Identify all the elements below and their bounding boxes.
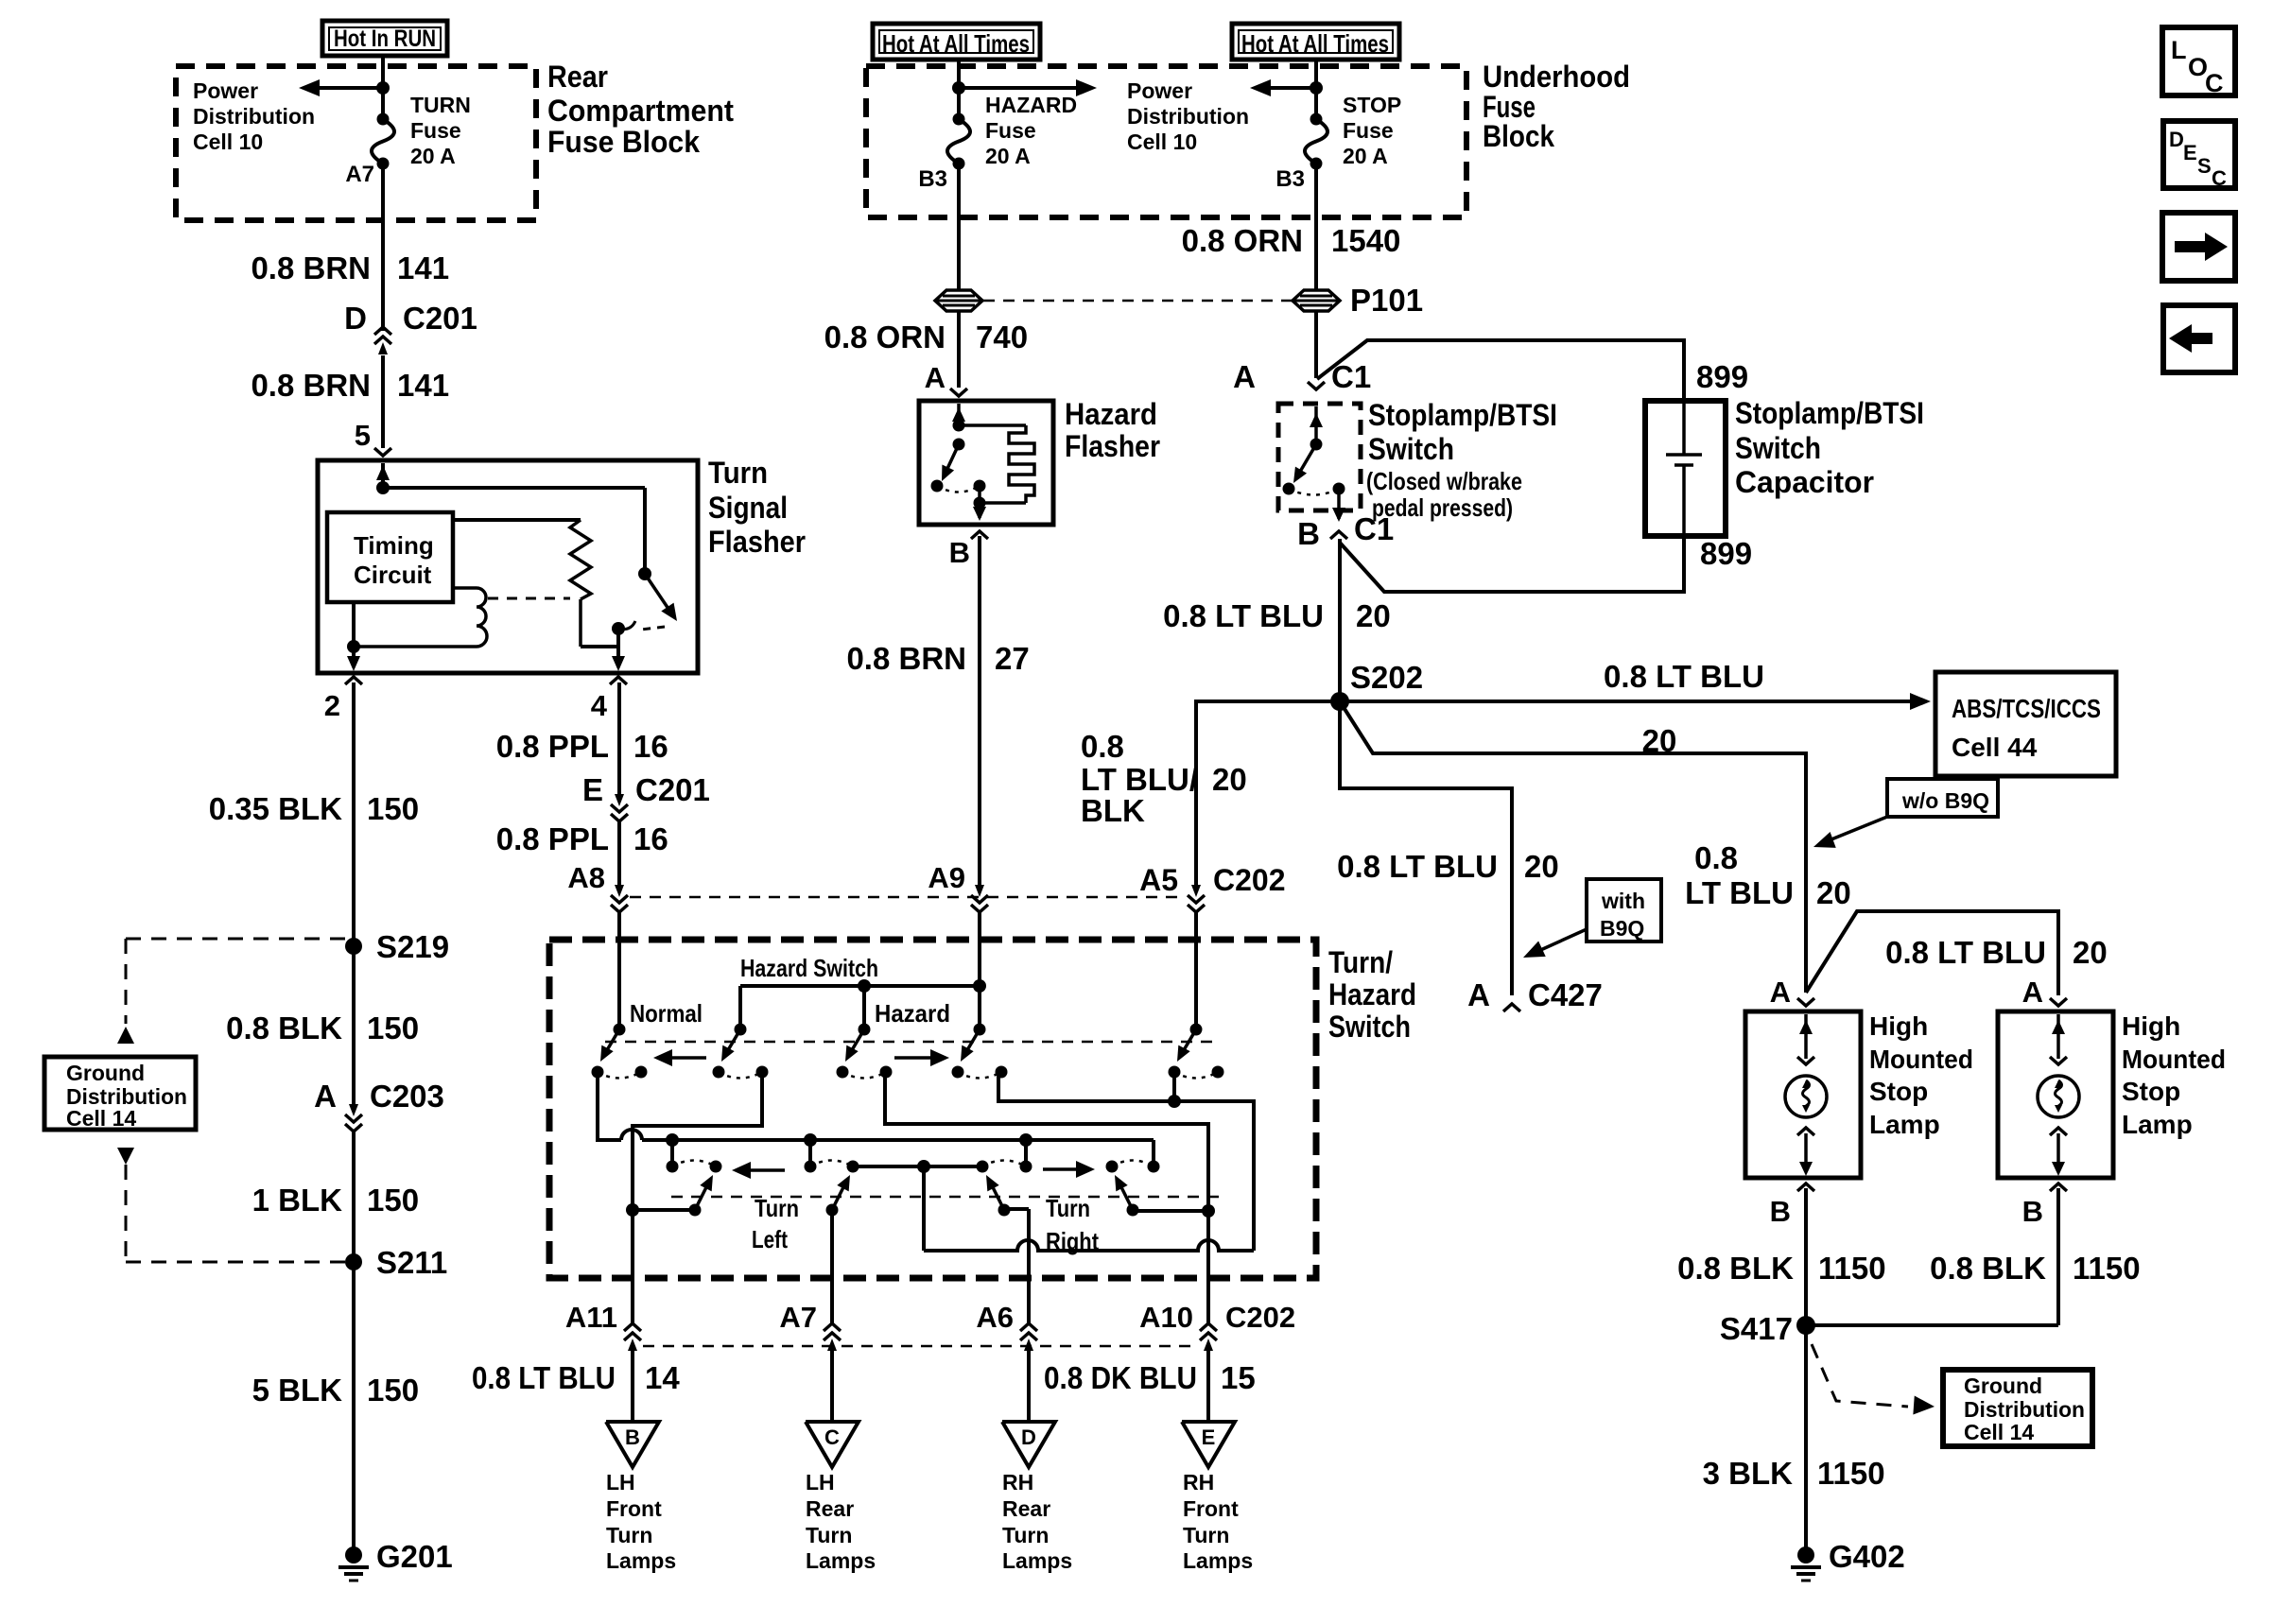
wire S202 to ABS cell: [1340, 693, 1931, 710]
lamp 1 inner chevron bottom: [1797, 1128, 1814, 1135]
wire hot to STOP fuse: [1314, 58, 1318, 119]
svg-text:Timing: Timing: [354, 531, 434, 560]
wire label 0.8 LT BLU 14: [472, 1360, 680, 1395]
svg-text:0.8 PPL: 0.8 PPL: [496, 821, 609, 856]
svg-text:P101: P101: [1350, 283, 1423, 318]
bus tap dot TR-A: [1019, 1133, 1032, 1147]
label "Stoplamp/BTSI Switch Capacitor": [1735, 396, 1924, 499]
label "High Mounted Stop Lamp" 1: [1869, 1011, 1973, 1139]
wire label 0.8 ORN 1540: [1182, 223, 1401, 258]
arrow w/o-B9Q to lamp wire: [1813, 817, 1887, 848]
wire label 0.8 LT BLU 20 (C427): [1337, 849, 1559, 884]
splice S202: [1330, 692, 1349, 711]
hazard flasher pivot dot: [953, 420, 965, 432]
svg-text:Capacitor: Capacitor: [1735, 465, 1874, 499]
svg-text:740: 740: [976, 320, 1028, 354]
svg-text:0.8 BLK: 0.8 BLK: [226, 1011, 342, 1045]
motion arrow right (upper row): [894, 1049, 949, 1066]
svg-text:High: High: [2122, 1011, 2180, 1041]
pin 2 chevron: [345, 677, 362, 684]
wire capacitor bottom loop: [1340, 536, 1684, 592]
svg-text:899: 899: [1696, 359, 1748, 394]
fuse TURN 20 A: [372, 119, 394, 164]
wire pole2 right contact to A11 node: [633, 1072, 762, 1205]
svg-text:27: 27: [995, 641, 1030, 676]
wire label 0.8 LT BLU 20 (stop): [1163, 598, 1391, 633]
flasher output node dot: [612, 622, 625, 635]
svg-text:C202: C202: [1213, 863, 1286, 897]
wire A11 node down / out: [631, 1210, 634, 1324]
C202 connector-row dashed line: [630, 896, 1185, 899]
svg-text:20 A: 20 A: [1343, 144, 1388, 168]
svg-text:A5: A5: [1139, 863, 1178, 897]
BTSI output wire: [1332, 489, 1345, 522]
ground distribution dashed link (left): [117, 939, 346, 1262]
connector A10 (C202): [1200, 1333, 1217, 1340]
svg-text:Cell 10: Cell 10: [193, 130, 263, 154]
chevron lamp 1 pin A: [1797, 998, 1814, 1006]
svg-text:Underhood: Underhood: [1483, 60, 1630, 94]
bulb (high mounted stop lamp 1): [1785, 1076, 1827, 1117]
wire stop fuse to P101: [1314, 164, 1318, 290]
svg-text:15: 15: [1221, 1360, 1256, 1395]
svg-text:B: B: [2022, 1195, 2043, 1228]
svg-text:0.8: 0.8: [1694, 840, 1738, 875]
Underhood Fuse Block dashed box: [866, 66, 1466, 217]
label "Turn Signal Flasher": [708, 456, 806, 559]
switch pole1 (A8/Normal) arm: [600, 1029, 619, 1062]
svg-text:Power: Power: [1127, 78, 1192, 103]
svg-text:D: D: [1021, 1425, 1036, 1449]
flasher switch dashed link: [641, 627, 665, 630]
svg-text:Cell 10: Cell 10: [1127, 130, 1197, 154]
pin 4 chevron: [610, 677, 627, 684]
svg-text:0.8 ORN: 0.8 ORN: [824, 320, 946, 354]
junction dot A11 node: [626, 1203, 639, 1217]
cross-link wire (hops A6, A10): [924, 1166, 1254, 1251]
wire bus to TR-A right contact: [1024, 1140, 1028, 1166]
svg-text:Compartment: Compartment: [547, 94, 734, 128]
svg-text:A6: A6: [976, 1301, 1014, 1334]
svg-text:Hazard: Hazard: [1065, 397, 1157, 431]
chevron lamp 2 pin A: [2050, 998, 2067, 1006]
svg-text:0.35 BLK: 0.35 BLK: [209, 791, 342, 826]
svg-text:0.8 ORN: 0.8 ORN: [1182, 223, 1303, 258]
svg-text:LT BLU: LT BLU: [1685, 875, 1794, 910]
svg-text:A8: A8: [567, 861, 605, 894]
Timing Circuit box: [327, 512, 453, 602]
connector E / C201: [582, 772, 710, 821]
svg-text:Hot In RUN: Hot In RUN: [334, 26, 436, 52]
label "Ground Distribution Cell 14" (right): [1964, 1373, 2085, 1444]
svg-text:Distribution: Distribution: [193, 104, 315, 129]
wire timing bottom to pin 2: [352, 602, 356, 662]
label "Power Distribution Cell 10" (underhood): [1127, 78, 1249, 154]
svg-text:5: 5: [355, 419, 371, 452]
connector A9 (C202 row): [971, 895, 988, 903]
svg-text:16: 16: [633, 729, 668, 764]
wire S202 to high lamp 1: [1340, 701, 1806, 993]
svg-text:A11: A11: [565, 1301, 617, 1334]
connector B / C1: [1297, 511, 1394, 551]
label "HAZARD Fuse 20 A": [985, 93, 1077, 168]
svg-text:TURN: TURN: [410, 93, 471, 117]
wire S211 to G201: [352, 1262, 356, 1547]
svg-text:Front: Front: [1183, 1496, 1239, 1521]
switch pole3 (Hazard) pivot dot: [859, 1024, 871, 1036]
wire C203 to S211: [352, 1132, 356, 1262]
wire A5 into switch: [1194, 912, 1198, 1029]
chevron hazard flasher pin B: [971, 531, 988, 539]
connector A7 (C202): [824, 1333, 841, 1340]
grommet P101 (stop side): [1293, 290, 1340, 311]
dashed coupling coil-resistor: [488, 597, 570, 600]
svg-text:0.8 PPL: 0.8 PPL: [496, 729, 609, 764]
label "Turn/ Hazard Switch": [1328, 945, 1416, 1044]
hazard flasher entry arrow: [952, 404, 965, 425]
svg-text:1 BLK: 1 BLK: [252, 1183, 343, 1218]
svg-text:20: 20: [1524, 849, 1559, 884]
switch pole2 contact arc: [719, 1072, 762, 1079]
flasher switch fixed contact: [638, 567, 651, 580]
svg-text:0.8 LT BLU: 0.8 LT BLU: [1885, 935, 2046, 970]
fuse STOP 20 A: [1305, 119, 1327, 164]
hazard flasher output wire: [973, 486, 986, 521]
wire hazard flasher B to A9: [978, 536, 981, 889]
svg-text:LH: LH: [606, 1470, 635, 1494]
Stoplamp/BTSI Switch dashed box: [1278, 404, 1361, 510]
svg-text:Stoplamp/BTSI: Stoplamp/BTSI: [1735, 396, 1924, 430]
flasher internal junction dot: [376, 481, 390, 494]
wire P101 to C1-A: [1314, 311, 1318, 378]
svg-text:0.8 BRN: 0.8 BRN: [846, 641, 966, 676]
svg-text:B9Q: B9Q: [1600, 916, 1644, 941]
svg-text:Signal: Signal: [708, 491, 788, 525]
label "Turn Left": [752, 1194, 799, 1253]
svg-text:C201: C201: [635, 772, 710, 807]
svg-text:Block: Block: [1483, 119, 1554, 153]
High Mounted Stop Lamp box 1: [1745, 1011, 1861, 1178]
switch pole5 (A5) right contact: [1212, 1066, 1224, 1079]
grommet P101 (hazard side): [935, 290, 982, 311]
destination triangle C: [806, 1422, 859, 1467]
svg-text:LT BLU/: LT BLU/: [1081, 762, 1198, 797]
svg-text:Hot At All Times: Hot At All Times: [1241, 29, 1389, 58]
turn-right pole A right contact: [1020, 1161, 1032, 1173]
ground G402: [1797, 1546, 1814, 1564]
svg-text:Ground: Ground: [1964, 1373, 2042, 1398]
label "ABS/TCS/ICCS Cell 44": [1952, 694, 2101, 762]
connector A11 (C202): [624, 1333, 641, 1340]
switch pole3 (Hazard) left contact: [837, 1066, 849, 1079]
wire bus end to TR-B right contact: [1152, 1140, 1155, 1168]
svg-text:20 A: 20 A: [410, 144, 456, 168]
svg-text:5 BLK: 5 BLK: [252, 1373, 343, 1408]
svg-text:E: E: [1202, 1425, 1216, 1449]
flasher internal top rail: [383, 486, 645, 490]
svg-text:C427: C427: [1528, 977, 1603, 1012]
svg-text:Rear: Rear: [547, 60, 608, 94]
C202 bottom connector-row dashed line: [643, 1345, 1198, 1348]
svg-text:HAZARD: HAZARD: [985, 93, 1077, 117]
wire hot to HAZARD fuse: [957, 58, 961, 119]
hazard flasher contact arc: [937, 486, 980, 492]
svg-text:Lamps: Lamps: [606, 1548, 676, 1573]
wire pole3 right contact to A10: [885, 1072, 1208, 1324]
svg-text:E: E: [582, 772, 603, 807]
wire A7 to triangle C: [830, 1351, 834, 1422]
wire A10 to triangle E: [1206, 1351, 1210, 1422]
svg-text:16: 16: [633, 821, 668, 856]
connector A / C427: [1467, 977, 1603, 1012]
svg-text:Turn: Turn: [1046, 1194, 1090, 1222]
switch pole1 (A8/Normal) pivot dot: [614, 1024, 626, 1036]
wire TL-B pivot to A7: [830, 1209, 834, 1324]
svg-text:0.8 LT BLU: 0.8 LT BLU: [472, 1360, 616, 1395]
ABS/TCS/ICCS Cell 44 box: [1935, 672, 2116, 776]
svg-text:S219: S219: [376, 929, 449, 964]
svg-text:0.8 DK BLU: 0.8 DK BLU: [1044, 1360, 1197, 1395]
bus tap dot TL-B: [804, 1133, 817, 1147]
junction node stop feed: [1310, 81, 1323, 95]
ground distribution dashed link (right): [1812, 1344, 1935, 1414]
svg-text:D: D: [2169, 128, 2184, 151]
Ground Distribution Cell 14 box (left): [44, 1057, 196, 1130]
svg-text:ABS/TCS/ICCS: ABS/TCS/ICCS: [1952, 694, 2101, 723]
svg-text:C: C: [824, 1425, 840, 1449]
label "Stoplamp/BTSI Switch": [1366, 398, 1557, 522]
svg-text:High: High: [1869, 1011, 1928, 1041]
turn-left pole B right contact: [847, 1161, 859, 1173]
BTSI left contact: [1283, 483, 1295, 495]
svg-text:Lamp: Lamp: [2122, 1110, 2193, 1139]
switch pole4 (A9) right contact: [996, 1066, 1008, 1079]
w/o B9Q box: [1887, 779, 1998, 817]
svg-text:150: 150: [367, 1373, 419, 1408]
svg-text:Turn: Turn: [606, 1523, 652, 1547]
wire C201 to flasher pin 5: [381, 355, 385, 448]
connector A6 (C202): [1020, 1333, 1037, 1340]
svg-text:(Closed w/brake: (Closed w/brake: [1366, 467, 1522, 495]
svg-text:Lamps: Lamps: [1183, 1548, 1253, 1573]
svg-text:A7: A7: [345, 162, 374, 187]
svg-text:w/o B9Q: w/o B9Q: [1901, 788, 1989, 813]
switch pole1 (A8/Normal) right contact: [635, 1066, 648, 1079]
wire label 5 BLK 150: [252, 1373, 419, 1408]
turn-left pole A arm: [695, 1175, 713, 1210]
arrow with-B9Q to C427 wire: [1523, 929, 1587, 958]
svg-text:B: B: [1770, 1195, 1791, 1228]
svg-text:20: 20: [2073, 935, 2108, 970]
svg-text:A: A: [925, 361, 946, 394]
BTSI switch arm: [1293, 444, 1316, 483]
wire lamp1 B to S417: [1804, 1188, 1808, 1325]
wire TR-B pivot jog to A10: [1133, 1209, 1208, 1213]
wire P101 to hazard flasher: [957, 311, 961, 388]
reference icon box arrow right: [2162, 213, 2235, 281]
switch pole3 (Hazard) contact arc: [842, 1072, 886, 1079]
svg-text:141: 141: [397, 368, 449, 403]
svg-text:0.8 BLK: 0.8 BLK: [1677, 1251, 1794, 1286]
svg-text:0.8 BRN: 0.8 BRN: [251, 251, 371, 285]
switch pole3 (Hazard) arm: [845, 1029, 864, 1062]
svg-text:20 A: 20 A: [985, 144, 1031, 168]
svg-text:RH: RH: [1183, 1470, 1214, 1494]
label "LH Front Turn Lamps": [606, 1470, 676, 1573]
wire pole1 left contact to bus: [598, 1072, 1154, 1140]
switch pole2 arm: [721, 1029, 740, 1062]
svg-text:141: 141: [397, 251, 449, 285]
pin 4 exit wire: [612, 629, 625, 671]
reference icon box arrow left: [2163, 305, 2235, 372]
svg-text:BLK: BLK: [1081, 793, 1145, 828]
svg-text:Turn: Turn: [806, 1523, 852, 1547]
coupling dashed line (upper row): [605, 1041, 1220, 1044]
svg-text:4: 4: [591, 689, 608, 722]
junction dot TL-B/TR-A link: [917, 1160, 930, 1173]
svg-text:3 BLK: 3 BLK: [1703, 1456, 1794, 1491]
svg-text:Switch: Switch: [1368, 432, 1454, 466]
svg-text:Lamp: Lamp: [1869, 1110, 1940, 1139]
switch pole2 left contact: [713, 1066, 725, 1079]
turn-right pole B contact arc: [1112, 1161, 1154, 1167]
wire label 1 BLK 150: [252, 1183, 419, 1218]
wire label 0.8 BLK 1150 (lamp2): [1930, 1251, 2140, 1286]
label "TURN Fuse 20 A": [410, 93, 471, 168]
svg-text:C203: C203: [370, 1079, 444, 1114]
flasher pin5 entry arrow: [376, 463, 390, 488]
svg-text:Cell 14: Cell 14: [66, 1106, 136, 1131]
svg-text:Circuit: Circuit: [354, 561, 432, 589]
dashed link between P101 grommets: [983, 300, 1292, 302]
svg-text:Hazard: Hazard: [1328, 977, 1416, 1011]
switch pole4 (A9) left contact: [952, 1066, 964, 1079]
turn-left pole B pivot dot: [826, 1204, 839, 1217]
svg-text:Stop: Stop: [2122, 1077, 2180, 1106]
wire label 3 BLK 1150: [1703, 1456, 1885, 1491]
wire TL-B right to TR-A left: [853, 1165, 982, 1168]
label "RH Rear Turn Lamps": [1002, 1470, 1072, 1573]
arrow to Power Distribution (left-pointing): [1250, 79, 1316, 96]
svg-text:Cell 14: Cell 14: [1964, 1420, 2034, 1444]
turn-right pole B arm: [1115, 1175, 1133, 1210]
turn-left pole A left contact: [667, 1161, 679, 1173]
chevron lamp 2 pin B: [2050, 1183, 2067, 1191]
lamp 2 inner chevron bottom: [2050, 1128, 2067, 1135]
with B9Q box: [1587, 879, 1661, 942]
switch pole3 (Hazard) right contact: [880, 1066, 893, 1079]
wire A8 into switch: [617, 912, 621, 1029]
Stoplamp/BTSI Switch Capacitor box: [1645, 401, 1726, 536]
svg-text:STOP: STOP: [1343, 93, 1401, 117]
turn-right pole A left contact: [977, 1161, 989, 1173]
svg-text:1540: 1540: [1331, 223, 1400, 258]
svg-text:with: with: [1601, 889, 1645, 913]
svg-text:Mounted: Mounted: [2122, 1045, 2226, 1074]
motion arrow left (upper row): [653, 1049, 706, 1066]
chevron lamp 1 pin B: [1797, 1183, 1814, 1191]
Rear Compartment Fuse Block dashed box: [176, 66, 536, 220]
svg-text:Normal: Normal: [630, 999, 703, 1028]
svg-text:150: 150: [367, 1011, 419, 1045]
svg-text:Rear: Rear: [1002, 1496, 1050, 1521]
BTSI pivot dot: [1310, 439, 1323, 451]
svg-text:B: B: [949, 536, 970, 569]
BTSI right contact: [1333, 483, 1345, 495]
coil (flasher relay): [354, 588, 487, 647]
svg-text:1150: 1150: [1818, 1251, 1886, 1286]
svg-text:Cell 44: Cell 44: [1952, 733, 2038, 762]
destination triangle E: [1182, 1422, 1235, 1467]
power label box "Hot At All Times" (stop): [1232, 24, 1399, 60]
wire label 0.35 BLK 150: [209, 791, 419, 826]
svg-text:Rear: Rear: [806, 1496, 854, 1521]
wire C201 to A8: [617, 821, 621, 889]
turn-left pole A contact arc: [672, 1161, 716, 1167]
wire resistor bottom to node: [581, 629, 618, 647]
svg-text:Stop: Stop: [1869, 1077, 1928, 1106]
svg-text:C: C: [2212, 166, 2227, 190]
svg-text:Fuse: Fuse: [1343, 118, 1394, 143]
svg-text:S: S: [2197, 154, 2212, 178]
wire TR-A pivot jog to A6: [1004, 1209, 1029, 1324]
connector A8 (C202 row): [611, 895, 628, 903]
reference icon box DESC: [2163, 121, 2235, 190]
wire rail to switch contact: [643, 488, 647, 574]
svg-text:Right: Right: [1046, 1227, 1099, 1255]
switch pole5 (A5) arm: [1177, 1029, 1196, 1062]
svg-text:0.8 LT BLU: 0.8 LT BLU: [1604, 659, 1764, 694]
wire label 0.8 ORN 740: [824, 320, 1028, 354]
svg-text:Flasher: Flasher: [1065, 429, 1160, 463]
svg-text:Switch: Switch: [1328, 1010, 1411, 1044]
svg-text:B3: B3: [1275, 166, 1305, 192]
svg-text:Turn: Turn: [1183, 1523, 1229, 1547]
destination triangle D: [1002, 1422, 1055, 1467]
label "Timing Circuit": [354, 531, 434, 589]
turn-right pole B pivot dot: [1127, 1204, 1139, 1217]
svg-text:C: C: [2205, 69, 2224, 97]
bus tap dot TL-A: [666, 1133, 679, 1147]
coupling dashed line (lower row): [671, 1196, 1225, 1199]
BTSI contact arc: [1289, 489, 1339, 495]
turn-right pole B right contact: [1148, 1161, 1160, 1173]
hazard flasher left contact: [931, 480, 944, 492]
ground G201: [345, 1546, 362, 1564]
label "RH Front Turn Lamps": [1183, 1470, 1253, 1573]
switch pole4 (A9) pivot dot: [974, 1024, 986, 1036]
connector A / C203: [314, 1079, 444, 1132]
turn-left pole A right contact: [710, 1161, 722, 1173]
wire label 0.8 BRN 141 (lower): [251, 368, 449, 403]
wire A11 to triangle B: [631, 1351, 634, 1422]
svg-text:Stoplamp/BTSI: Stoplamp/BTSI: [1368, 398, 1557, 432]
switch pole5 (A5) contact arc: [1174, 1072, 1218, 1079]
svg-text:Switch: Switch: [1735, 431, 1821, 465]
connector chevron pin 5: [374, 448, 391, 456]
svg-text:Mounted: Mounted: [1869, 1045, 1973, 1074]
wire S202 to C427: [1340, 701, 1512, 995]
svg-text:B: B: [625, 1425, 640, 1449]
svg-text:A: A: [314, 1079, 337, 1114]
wire pin4 to C201-E: [617, 682, 621, 794]
hazard flasher right contact: [974, 480, 986, 492]
flasher switch arm: [645, 574, 677, 621]
turn-right pole A pivot dot: [998, 1204, 1011, 1217]
svg-text:D: D: [344, 301, 367, 336]
wire branch lamp1 to lamp2: [1806, 911, 2058, 995]
svg-text:0.8 LT BLU: 0.8 LT BLU: [1337, 849, 1498, 884]
